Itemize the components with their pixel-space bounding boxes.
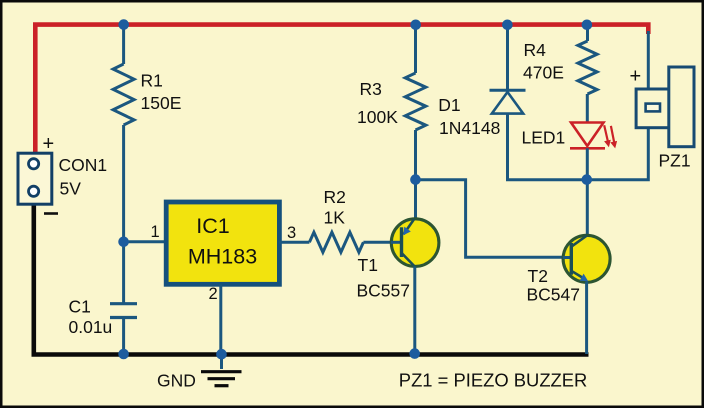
wire: piezo top lead from +5V rail	[647, 31, 650, 90]
svg-text:R2: R2	[324, 187, 346, 207]
wire: D1 anode down and across to LED/T2 node, up to piezo	[508, 114, 649, 180]
svg-text:0.01u: 0.01u	[69, 317, 113, 337]
junction node pin1/R1/C1	[118, 237, 129, 248]
svg-text:CON1: CON1	[59, 155, 108, 175]
label D1 value 1N4148	[438, 95, 500, 138]
resistor R2	[309, 232, 363, 252]
label C1 value 0.01u	[69, 296, 113, 337]
resistor R1	[113, 64, 134, 125]
svg-text:BC557: BC557	[357, 280, 411, 300]
wire: C1 bottom lead to ground rail	[122, 319, 125, 355]
label LED1	[522, 128, 566, 148]
LED LED1	[570, 123, 617, 149]
svg-text:150E: 150E	[141, 93, 182, 113]
label R4 value 470E	[523, 40, 564, 82]
svg-text:+: +	[43, 133, 55, 155]
svg-text:5V: 5V	[60, 179, 82, 199]
piezo buzzer PZ1	[636, 67, 694, 147]
svg-text:3: 3	[287, 224, 296, 242]
label T1 value BC557	[357, 255, 411, 300]
capacitor C1	[110, 304, 137, 318]
svg-text:PZ1: PZ1	[659, 150, 691, 170]
svg-text:470E: 470E	[523, 63, 564, 83]
svg-text:1N4148: 1N4148	[439, 118, 500, 138]
svg-text:C1: C1	[69, 296, 91, 316]
resistor R3	[405, 73, 426, 130]
resistor R4	[578, 41, 597, 94]
svg-text:T1: T1	[358, 255, 378, 275]
label GND	[157, 371, 196, 391]
svg-text:1: 1	[151, 223, 160, 241]
label: bottom note PZ1 = PIEZO BUZZER	[399, 369, 588, 390]
pin number 1	[151, 223, 160, 241]
svg-text:MH183: MH183	[188, 245, 257, 269]
wire: ground rail (black)	[34, 204, 589, 355]
svg-text:100K: 100K	[357, 107, 398, 127]
wire: pin 3 of IC1 to R2	[279, 241, 309, 244]
wire: pin 1 of IC1 to R1/C1 junction	[124, 240, 167, 243]
wire: pin 2 of IC1 down to ground rail	[219, 285, 222, 355]
wire: LED1 cathode down through node to T2 collector	[586, 148, 589, 235]
svg-text:T2: T2	[528, 266, 548, 286]
ground symbol GND	[201, 354, 242, 385]
wire: D1 top lead from +5V rail	[506, 25, 509, 91]
junction node T1 collector/ground rail	[409, 348, 420, 359]
wire: R3 bottom lead to T1 emitter node	[414, 130, 417, 219]
junction node pin2/ground rail	[216, 349, 227, 360]
pin number 2	[209, 285, 218, 303]
wire: R3 top lead from +5V rail	[414, 25, 417, 74]
wire: R2 to T1 base	[363, 241, 401, 244]
junction node A: R3/T1/branch	[410, 174, 421, 185]
diode D1 1N4148	[490, 90, 526, 113]
transistor T2 (BC547 NPN)	[563, 235, 610, 282]
label R1 value 150E	[141, 71, 182, 114]
wire: pin1 node to C1 top	[122, 242, 125, 303]
svg-text:IC1: IC1	[196, 214, 229, 238]
wire: R4 top lead from +5V rail	[586, 25, 589, 42]
junction node on +5V rail at R1	[118, 19, 129, 30]
svg-text:1K: 1K	[324, 208, 346, 228]
label R3 value 100K	[357, 79, 398, 127]
svg-text:GND: GND	[157, 371, 196, 391]
label R2 value 1K	[324, 187, 346, 228]
svg-text:LED1: LED1	[522, 128, 566, 148]
label CON1 value 5V	[59, 155, 108, 199]
wire: branch from node A to T2 base	[416, 180, 572, 258]
wire: R4 to LED1	[586, 94, 589, 122]
wire: R1 top lead from +5V rail	[122, 25, 125, 65]
label PZ1	[659, 150, 691, 170]
junction node C1/ground rail	[118, 349, 129, 360]
junction node on +5V rail at D1	[502, 20, 513, 31]
label CON1 plus terminal	[43, 133, 55, 155]
transistor T1 (BC557 PNP)	[391, 219, 439, 267]
connector CON1	[18, 153, 52, 204]
wire: T2 emitter to ground rail end	[585, 282, 588, 355]
junction node LED1/T2 collector/D1 wire	[582, 174, 593, 185]
junction node on +5V rail at R4	[582, 20, 593, 31]
wire: +5V red supply rail	[35, 25, 648, 153]
svg-text:+: +	[630, 66, 642, 88]
label T2 value BC547	[527, 266, 581, 304]
svg-text:2: 2	[209, 285, 218, 303]
svg-text:R1: R1	[141, 71, 163, 91]
label PZ1 plus terminal	[630, 66, 642, 88]
svg-text:BC547: BC547	[527, 284, 581, 304]
IC U1: IC1 MH183	[166, 202, 279, 284]
svg-text:R4: R4	[524, 40, 547, 60]
svg-text:R3: R3	[360, 79, 382, 99]
svg-text:PZ1 = PIEZO BUZZER: PZ1 = PIEZO BUZZER	[399, 369, 588, 390]
label CON1 minus terminal	[44, 212, 58, 215]
svg-text:D1: D1	[438, 95, 460, 115]
pin number 3	[287, 224, 296, 242]
junction node on +5V rail at R3	[410, 20, 421, 31]
wire: T1 collector to ground rail	[413, 266, 416, 354]
wire: R1 bottom lead to pin1 node	[122, 125, 125, 242]
